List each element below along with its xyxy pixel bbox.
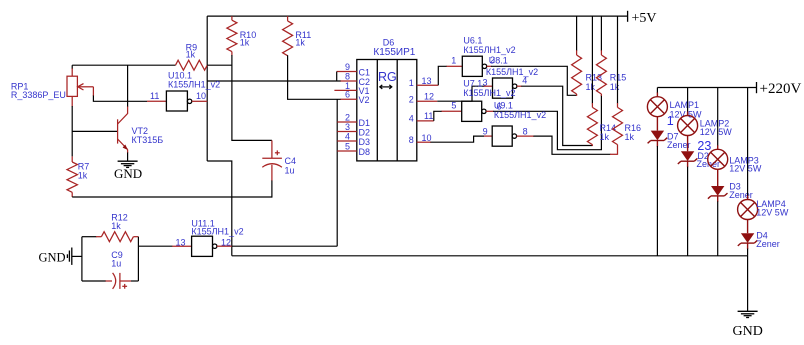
svg-text:1k: 1k: [586, 82, 596, 92]
wire loop right vertical: [137, 237, 139, 281]
pin 11 output: [417, 111, 434, 121]
wire C2 line from left vertical to D6: [207, 80, 341, 82]
svg-text:U8.1: U8.1: [489, 56, 508, 66]
wire U8.1 out to R14: [521, 86, 592, 145]
svg-text:Zener: Zener: [729, 190, 753, 200]
capacitor C9: [82, 250, 131, 289]
pin 12 output: [417, 92, 438, 102]
svg-text:6: 6: [345, 90, 350, 100]
svg-text:1u: 1u: [285, 166, 295, 176]
wire loop to U11.1: [131, 280, 138, 282]
svg-text:C4: C4: [285, 156, 297, 166]
svg-text:12: 12: [424, 92, 434, 102]
wire pot top to R9 and collector junction: [72, 64, 175, 66]
wire U6.1 out to R13: [491, 66, 577, 95]
op-amp U6.1 inverter: [447, 36, 516, 77]
pin 1 V1: [334, 81, 356, 91]
wire from +5V rail down left side: [206, 16, 208, 161]
lamp LAMP4: [738, 88, 789, 220]
ground bottom right: [733, 311, 763, 339]
svg-text:1k: 1k: [610, 82, 620, 92]
svg-text:К155ЛН1_v2: К155ЛН1_v2: [486, 67, 538, 77]
potentiometer RP1: [11, 65, 94, 106]
svg-text:D8: D8: [359, 147, 371, 157]
svg-text:К155ЛН1_v2: К155ЛН1_v2: [191, 227, 243, 237]
svg-text:10: 10: [196, 91, 206, 101]
svg-text:1: 1: [667, 114, 674, 128]
svg-text:GND: GND: [39, 250, 66, 264]
capacitor C4: [262, 140, 296, 181]
pin 10 output: [417, 133, 432, 143]
wire jog to lower vertical: [207, 161, 232, 256]
pin 2 D1: [337, 113, 357, 123]
wire bottom bus: [232, 255, 748, 257]
pin 4 D3: [337, 132, 357, 142]
pin 13 output: [417, 76, 439, 86]
svg-text:К155ЛН1_v2: К155ЛН1_v2: [494, 110, 546, 120]
svg-text:11: 11: [150, 91, 159, 101]
op-amp U7.1 inverter: [442, 79, 516, 122]
svg-text:RG: RG: [378, 70, 397, 84]
svg-text:1: 1: [409, 78, 414, 88]
wire R9 to R10 bottom: [207, 64, 232, 66]
wire lamp2 to D2: [687, 136, 689, 152]
svg-text:GND: GND: [114, 166, 142, 181]
pin 8 C2: [341, 71, 357, 81]
svg-text:12V 5W: 12V 5W: [729, 164, 762, 174]
wire pot bottom to base junction and R7: [71, 106, 73, 156]
svg-text:V2: V2: [359, 95, 370, 105]
svg-text:12V 5W: 12V 5W: [700, 127, 733, 137]
svg-text:1k: 1k: [78, 171, 88, 181]
lamp LAMP3: [708, 88, 762, 174]
wire lamp1 to D7: [656, 117, 658, 131]
wire U11.1 output to D6 data vertical: [232, 245, 337, 247]
svg-text:3: 3: [345, 122, 350, 132]
wire U9.1 out to R16: [533, 136, 610, 154]
diode D4 Zener: [738, 231, 780, 250]
op-amp U8.1 inverter: [483, 56, 539, 99]
svg-text:1k: 1k: [600, 132, 610, 142]
op-amp U10.1 inverter: [147, 71, 220, 112]
+220V power rail: [657, 81, 801, 97]
wire D2 to bus: [687, 167, 689, 256]
wire pin11 to U7.1: [434, 111, 442, 121]
svg-text:9: 9: [483, 127, 488, 137]
svg-text:GND: GND: [733, 324, 763, 339]
svg-text:1k: 1k: [295, 38, 305, 48]
resistor R12 with C9 loop: [82, 213, 138, 242]
resistor R7: [67, 156, 89, 197]
GND port at left: [39, 248, 72, 265]
diode D3 Zener: [708, 182, 753, 202]
svg-text:2: 2: [345, 113, 350, 123]
svg-text:+220V: +220V: [760, 81, 802, 97]
svg-text:К155ЛН1_v2: К155ЛН1_v2: [463, 45, 515, 55]
svg-text:12V 5W: 12V 5W: [756, 207, 789, 217]
ground under VT2: [114, 161, 142, 181]
wire U7.1 out to R15: [493, 95, 601, 150]
pin 3 D2: [337, 122, 357, 132]
wire R10 bottom down to C4 line: [232, 55, 272, 140]
wire data vertical up to V2: [336, 99, 338, 246]
wire GND to RC loop: [72, 255, 82, 257]
wire R11 bottom to V2 pin line: [288, 55, 341, 99]
op-amp U11.1 inverter: [172, 218, 243, 256]
wire D7 to bus: [656, 146, 658, 256]
svg-text:D2: D2: [359, 127, 371, 137]
transistor VT2: [72, 65, 163, 161]
svg-text:R_3386P_EU: R_3386P_EU: [11, 90, 66, 100]
wire wiper to U10.1 input: [93, 96, 147, 102]
wire pin10 to U9.1: [431, 136, 485, 142]
svg-text:8: 8: [409, 135, 414, 145]
svg-text:1k: 1k: [625, 132, 635, 142]
wire pin13 to U6.1: [438, 66, 447, 85]
lamp LAMP2: [678, 88, 733, 137]
register D6 К155ИР1: [357, 37, 417, 160]
svg-text:D1: D1: [359, 118, 371, 128]
resistor R9: [176, 42, 208, 70]
wire lamp4 to D4: [747, 220, 749, 234]
svg-text:К155ИР1: К155ИР1: [373, 47, 415, 58]
lamp LAMP1: [647, 88, 702, 120]
svg-text:LAMP1: LAMP1: [670, 100, 700, 110]
+5V power rail: [207, 11, 656, 26]
svg-text:9: 9: [345, 62, 350, 72]
svg-text:1: 1: [451, 55, 456, 65]
pin 9 C1: [337, 62, 357, 81]
op-amp U9.1 inverter: [483, 101, 546, 147]
wire bottom line R7 to C4: [72, 196, 272, 198]
wire loop left vertical: [81, 237, 83, 281]
svg-text:8: 8: [523, 127, 528, 137]
svg-text:11: 11: [424, 111, 433, 121]
svg-text:5: 5: [345, 142, 350, 152]
svg-text:R13: R13: [586, 72, 603, 82]
resistor R10: [227, 16, 256, 55]
svg-text:C1: C1: [359, 67, 371, 77]
svg-text:1k: 1k: [186, 49, 196, 59]
svg-text:КТ315Б: КТ315Б: [132, 135, 164, 145]
resistor R13: [572, 16, 602, 96]
svg-text:Zener: Zener: [756, 239, 780, 249]
svg-text:5: 5: [451, 100, 456, 110]
svg-text:4: 4: [345, 132, 350, 142]
svg-text:D3: D3: [359, 137, 371, 147]
resistor R15: [596, 16, 626, 96]
wire bus to ground: [747, 256, 749, 311]
diode D2 Zener: [678, 151, 720, 169]
svg-text:+5V: +5V: [632, 11, 657, 26]
resistor R14: [587, 16, 616, 146]
wire D3 to bus: [717, 201, 719, 255]
svg-text:1u: 1u: [111, 259, 121, 269]
svg-text:2: 2: [409, 95, 414, 105]
svg-text:4: 4: [409, 114, 414, 124]
svg-text:4: 4: [522, 75, 527, 85]
resistor R11: [283, 16, 312, 56]
pin 5 D8: [337, 142, 357, 152]
wire C4 bottom to bottom line: [271, 181, 273, 198]
pin 6 V2: [341, 90, 357, 100]
wire D4 to bus: [747, 249, 749, 256]
svg-text:1k: 1k: [111, 221, 121, 231]
resistor R16: [613, 16, 642, 155]
wire pin12 to U8.1: [437, 86, 484, 101]
svg-text:1k: 1k: [240, 38, 250, 48]
svg-text:К155ЛН1_v2: К155ЛН1_v2: [463, 88, 515, 98]
wire lamp3 to D3: [717, 169, 719, 186]
diode D7 Zener: [648, 131, 691, 150]
svg-text:12V 5W: 12V 5W: [670, 110, 703, 120]
svg-text:К155ЛН1_v2: К155ЛН1_v2: [168, 80, 220, 90]
